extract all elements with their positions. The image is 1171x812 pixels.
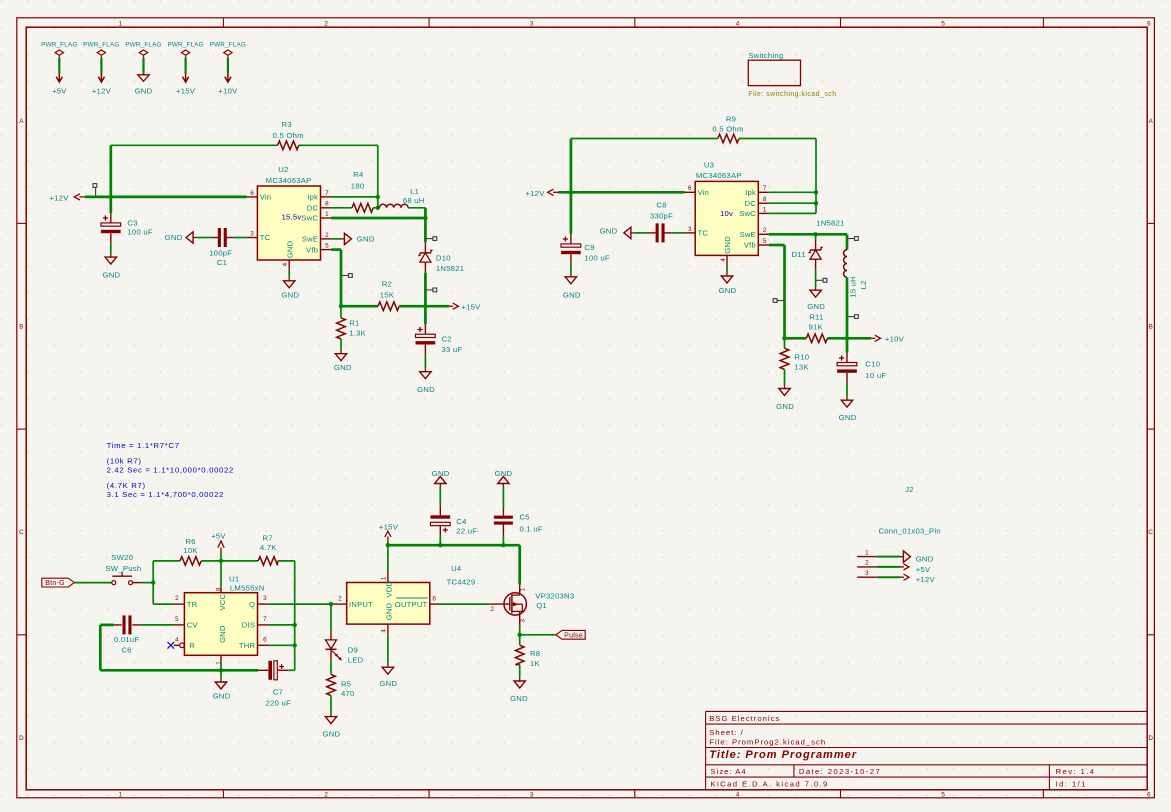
svg-text:D9: D9 (348, 645, 358, 654)
svg-text:3: 3 (263, 595, 267, 602)
svg-text:3: 3 (865, 570, 869, 577)
svg-text:6: 6 (432, 596, 436, 603)
svg-text:GND: GND (719, 286, 737, 295)
svg-text:R2: R2 (382, 280, 392, 289)
svg-text:Conn_01x03_Pin: Conn_01x03_Pin (878, 526, 941, 535)
svg-text:SwC: SwC (739, 209, 756, 218)
svg-text:100pF: 100pF (209, 249, 232, 258)
svg-text:+15V: +15V (461, 303, 481, 312)
svg-text:4: 4 (380, 629, 387, 633)
svg-text:13K: 13K (794, 362, 809, 371)
svg-text:R9: R9 (726, 115, 736, 124)
svg-text:PWR_FLAG: PWR_FLAG (41, 42, 77, 49)
svg-text:Size: A4: Size: A4 (711, 767, 747, 776)
svg-text:0.01uF: 0.01uF (114, 635, 139, 644)
svg-text:+15V: +15V (379, 523, 399, 532)
svg-text:1.3K: 1.3K (349, 329, 366, 338)
svg-text:4: 4 (175, 636, 179, 643)
svg-text:B: B (19, 323, 23, 330)
svg-text:D11: D11 (792, 250, 806, 259)
svg-text:4: 4 (736, 792, 740, 799)
svg-text:R8: R8 (530, 649, 540, 658)
svg-text:C1: C1 (217, 258, 227, 267)
svg-text:GND: GND (916, 555, 934, 564)
svg-text:+5V: +5V (211, 532, 226, 541)
svg-text:SwC: SwC (301, 214, 318, 223)
svg-text:GND: GND (218, 625, 227, 643)
svg-text:GND: GND (357, 234, 375, 243)
svg-text:GND: GND (334, 363, 352, 372)
svg-text:Q1: Q1 (536, 601, 547, 610)
svg-text:100 uF: 100 uF (127, 227, 152, 236)
svg-text:GND: GND (285, 240, 294, 258)
svg-text:GND: GND (417, 385, 435, 394)
svg-text:U1: U1 (229, 574, 239, 583)
svg-text:0.1 uF: 0.1 uF (520, 524, 543, 533)
svg-text:4: 4 (720, 258, 727, 262)
svg-text:File: PromProg2.kicad_sch: File: PromProg2.kicad_sch (709, 738, 826, 747)
svg-text:R6: R6 (185, 537, 195, 546)
svg-text:PWR_FLAG: PWR_FLAG (210, 42, 246, 49)
svg-text:C8: C8 (656, 201, 666, 210)
svg-text:Time = 1.1*R7*C7: Time = 1.1*R7*C7 (107, 441, 180, 450)
svg-text:DIS: DIS (242, 621, 255, 630)
svg-text:A: A (1149, 118, 1154, 125)
svg-text:U4: U4 (451, 564, 462, 573)
svg-text:TC: TC (260, 233, 271, 242)
svg-text:100 uF: 100 uF (584, 253, 609, 262)
svg-text:KiCad E.D.A. kicad 7.0.9: KiCad E.D.A. kicad 7.0.9 (711, 780, 829, 789)
svg-text:Vin: Vin (698, 188, 710, 197)
svg-text:R11: R11 (809, 313, 823, 322)
svg-text:C7: C7 (273, 687, 283, 696)
svg-text:GND: GND (563, 290, 581, 299)
svg-text:Date: 2023-10-27: Date: 2023-10-27 (799, 767, 881, 776)
svg-text:GND: GND (723, 236, 732, 254)
svg-text:3: 3 (520, 619, 527, 623)
svg-text:CV: CV (187, 621, 199, 630)
svg-text:33 uF: 33 uF (442, 345, 463, 354)
svg-text:10K: 10K (183, 546, 198, 555)
svg-text:5: 5 (941, 20, 945, 27)
svg-text:A: A (19, 118, 24, 125)
svg-text:+15V: +15V (176, 87, 196, 96)
svg-text:D: D (19, 735, 24, 742)
svg-text:GND: GND (510, 694, 528, 703)
svg-text:Vfb: Vfb (744, 241, 756, 250)
svg-text:Ipk: Ipk (307, 193, 318, 202)
svg-text:C: C (1148, 529, 1153, 536)
svg-text:DC: DC (745, 199, 757, 208)
svg-text:1N5821: 1N5821 (436, 264, 464, 273)
svg-text:4: 4 (736, 20, 740, 27)
svg-text:0.5 Ohm: 0.5 Ohm (712, 125, 743, 134)
svg-text:6: 6 (1147, 20, 1151, 27)
svg-text:470: 470 (341, 689, 355, 698)
svg-text:U2: U2 (278, 165, 288, 174)
svg-text:1N5821: 1N5821 (816, 219, 844, 228)
svg-text:THR: THR (239, 641, 256, 650)
svg-text:R: R (189, 641, 195, 650)
svg-text:Sheet: /: Sheet: / (709, 728, 744, 737)
svg-text:6: 6 (688, 185, 692, 192)
svg-text:+12V: +12V (916, 575, 936, 584)
svg-text:+5V: +5V (916, 565, 931, 574)
svg-text:GND: GND (165, 233, 183, 242)
svg-text:220 uF: 220 uF (266, 699, 291, 708)
svg-text:+12V: +12V (525, 189, 545, 198)
svg-text:2: 2 (325, 232, 329, 239)
svg-text:1: 1 (380, 576, 387, 580)
svg-text:L2: L2 (859, 280, 868, 289)
svg-text:8: 8 (216, 587, 223, 591)
svg-text:C4: C4 (456, 517, 467, 526)
svg-text:GND: GND (379, 679, 397, 688)
svg-text:+10V: +10V (218, 87, 238, 96)
svg-text:6: 6 (263, 636, 267, 643)
svg-text:1: 1 (763, 206, 767, 213)
svg-text:LED: LED (348, 655, 364, 664)
svg-text:R1: R1 (349, 319, 359, 328)
svg-text:15 uH: 15 uH (849, 276, 858, 298)
svg-text:PWR_FLAG: PWR_FLAG (125, 42, 161, 49)
svg-text:1: 1 (865, 549, 869, 556)
svg-text:SwE: SwE (302, 235, 318, 244)
svg-text:2: 2 (324, 20, 328, 27)
svg-text:10 uF: 10 uF (865, 371, 886, 380)
svg-text:C2: C2 (442, 334, 452, 343)
svg-text:GND: GND (322, 730, 340, 739)
svg-text:1K: 1K (530, 659, 541, 668)
svg-text:2: 2 (865, 560, 869, 567)
svg-text:TR: TR (187, 600, 198, 609)
svg-text:TC4429: TC4429 (447, 578, 476, 587)
svg-text:SW20: SW20 (111, 553, 133, 562)
svg-text:10v: 10v (720, 209, 733, 218)
svg-text:+12V: +12V (92, 87, 112, 96)
svg-text:Ipk: Ipk (745, 188, 756, 197)
svg-text:(4.7K R7): (4.7K R7) (107, 481, 146, 490)
svg-text:GND: GND (776, 402, 794, 411)
svg-text:File: switching.kicad_sch: File: switching.kicad_sch (748, 91, 836, 98)
svg-text:+10V: +10V (885, 335, 905, 344)
svg-text:U3: U3 (704, 161, 714, 170)
svg-text:Q: Q (249, 600, 255, 609)
svg-text:TC: TC (698, 229, 709, 238)
svg-text:3: 3 (688, 226, 692, 233)
svg-text:3: 3 (530, 792, 534, 799)
svg-text:C9: C9 (584, 243, 594, 252)
svg-text:Title: Prom Programmer: Title: Prom Programmer (709, 749, 857, 761)
svg-text:330pF: 330pF (650, 212, 673, 221)
svg-text:68 uH: 68 uH (403, 196, 425, 205)
svg-text:7: 7 (263, 616, 267, 623)
svg-text:5: 5 (175, 616, 179, 623)
svg-text:INPUT: INPUT (349, 600, 373, 609)
svg-text:Vin: Vin (260, 193, 272, 202)
svg-text:6: 6 (250, 190, 254, 197)
svg-text:MC34063AP: MC34063AP (266, 176, 312, 185)
svg-text:LM555xN: LM555xN (230, 583, 265, 592)
svg-text:180: 180 (351, 182, 365, 191)
svg-text:C10: C10 (865, 359, 880, 368)
svg-text:R10: R10 (794, 353, 809, 362)
svg-text:2: 2 (490, 606, 494, 613)
svg-text:L1: L1 (410, 187, 419, 196)
svg-text:D10: D10 (436, 254, 451, 263)
svg-text:3: 3 (530, 20, 534, 27)
svg-text:5: 5 (763, 238, 767, 245)
svg-text:3.1 Sec = 1.1*4,700*0.00022: 3.1 Sec = 1.1*4,700*0.00022 (107, 490, 224, 499)
svg-text:1: 1 (119, 792, 123, 799)
svg-text:91K: 91K (808, 322, 823, 331)
svg-text:Id: 1/1: Id: 1/1 (1056, 780, 1087, 789)
svg-text:R3: R3 (282, 120, 292, 129)
svg-text:5: 5 (941, 792, 945, 799)
svg-text:VP3203N3: VP3203N3 (535, 592, 574, 601)
svg-text:2.42 Sec = 1.1*10,000*0.00022: 2.42 Sec = 1.1*10,000*0.00022 (107, 466, 234, 475)
svg-text:+12V: +12V (50, 194, 70, 203)
svg-text:GND: GND (385, 602, 394, 620)
svg-text:SwE: SwE (740, 230, 756, 239)
svg-text:1: 1 (325, 211, 329, 218)
svg-text:5: 5 (325, 243, 329, 250)
svg-text:DC: DC (307, 204, 319, 213)
svg-text:VDD: VDD (385, 581, 394, 598)
svg-text:1: 1 (119, 20, 123, 27)
svg-text:Switching: Switching (748, 51, 783, 60)
svg-text:PWR_FLAG: PWR_FLAG (167, 42, 203, 49)
svg-text:Rev: 1.4: Rev: 1.4 (1056, 767, 1096, 776)
svg-text:GND: GND (600, 226, 618, 235)
svg-text:C: C (19, 529, 24, 536)
svg-text:OUTPUT: OUTPUT (395, 600, 428, 609)
svg-text:D: D (1148, 735, 1153, 742)
svg-text:6: 6 (1147, 792, 1151, 799)
svg-text:J2: J2 (905, 485, 914, 494)
svg-text:Pulse: Pulse (564, 632, 583, 639)
svg-text:Vfb: Vfb (306, 245, 318, 254)
svg-text:Btn-G: Btn-G (45, 580, 65, 587)
svg-text:GND: GND (102, 270, 120, 279)
svg-text:15.5v: 15.5v (281, 212, 301, 221)
svg-text:8: 8 (763, 196, 767, 203)
svg-text:C6: C6 (121, 645, 131, 654)
svg-text:7: 7 (763, 185, 767, 192)
svg-text:1: 1 (520, 587, 527, 591)
svg-text:B: B (1149, 323, 1153, 330)
svg-text:VCC: VCC (218, 593, 227, 610)
svg-text:0.5 Ohm: 0.5 Ohm (273, 131, 304, 140)
svg-text:BSG Electronics: BSG Electronics (709, 714, 780, 723)
svg-text:R5: R5 (341, 680, 351, 689)
svg-text:4: 4 (282, 262, 289, 266)
svg-text:(10k R7): (10k R7) (107, 457, 142, 466)
svg-text:+5V: +5V (52, 87, 67, 96)
svg-text:R7: R7 (263, 534, 273, 543)
svg-text:2: 2 (338, 596, 342, 603)
svg-text:2: 2 (763, 227, 767, 234)
svg-text:7: 7 (325, 190, 329, 197)
svg-text:PWR_FLAG: PWR_FLAG (83, 42, 119, 49)
svg-text:GND: GND (213, 691, 231, 700)
svg-text:15K: 15K (380, 290, 395, 299)
svg-text:SW_Push: SW_Push (105, 564, 141, 573)
svg-text:GND: GND (281, 291, 299, 300)
svg-text:3: 3 (250, 230, 254, 237)
svg-text:GND: GND (135, 87, 153, 96)
svg-text:2: 2 (175, 595, 179, 602)
svg-text:8: 8 (325, 201, 329, 208)
svg-text:GND: GND (839, 413, 857, 422)
svg-text:4.7K: 4.7K (260, 543, 277, 552)
svg-text:MC34063AP: MC34063AP (696, 171, 742, 180)
svg-text:C5: C5 (520, 513, 530, 522)
svg-text:R4: R4 (353, 170, 364, 179)
svg-text:GND: GND (807, 302, 825, 311)
svg-text:2: 2 (324, 792, 328, 799)
svg-text:22 uF: 22 uF (456, 526, 477, 535)
